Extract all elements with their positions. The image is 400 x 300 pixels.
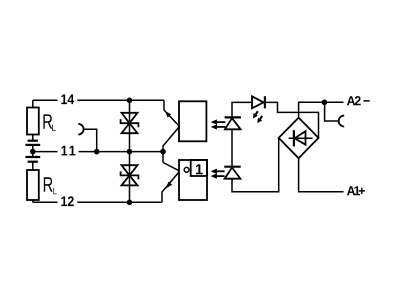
wire 11-node down stub (162, 152, 164, 163)
suppressor Z1 zener bar (121, 119, 139, 127)
label terminal 14 (61, 94, 74, 104)
connector socket left (78, 124, 83, 135)
wire Q2 collector diagonal (163, 163, 179, 171)
arrow D1 light out lower (260, 116, 263, 120)
arrow light U1 upper (217, 121, 226, 123)
suppressor Z1 top triangle (122, 113, 138, 123)
label R1 value R_L (43, 114, 55, 131)
wire terminal 11 line (33, 151, 163, 153)
circle U2 inverter bubble (184, 167, 189, 172)
box U1 phototransistor (179, 101, 206, 141)
led D2 opto triangle (225, 118, 241, 129)
capacitor C2 bottom plate (28, 161, 38, 163)
wire D1 to jog (265, 102, 319, 137)
arrow light U2 upper (217, 170, 225, 172)
wire TVS column lower (129, 152, 131, 203)
wire terminal 12 line (33, 201, 162, 203)
diode B1 inner cathode bar (293, 130, 295, 146)
wire 14-line to R1 (32, 100, 34, 107)
led D3 opto cathode bar (224, 166, 240, 168)
label terminal A1+ (347, 186, 365, 195)
label terminal 12 (61, 196, 73, 206)
arrow light U1 lower (217, 126, 226, 128)
led D3 opto triangle (225, 168, 241, 179)
suppressor Z2 top triangle (122, 165, 138, 175)
label U2 logic 1 (196, 164, 203, 174)
wire C2 to R2 (32, 162, 34, 170)
label terminal A2- (347, 96, 370, 105)
arrow D1 light out upper (255, 111, 258, 115)
node transistor junction on 11-line (160, 149, 166, 155)
node TVS2 bottom on 12-line (127, 200, 133, 206)
wire C1 to node mid (32, 145, 34, 157)
wire LED column top corner (232, 102, 252, 117)
wire bridge top to A2 line (299, 102, 344, 117)
box U2 photoreceiver with logic (179, 160, 207, 200)
node socket junction on 11 (94, 149, 100, 155)
resistor R2 body (27, 170, 39, 200)
diode B1 inner wire (289, 137, 313, 139)
connector socket right (339, 116, 345, 127)
node TVS junction on 11-line (127, 149, 133, 155)
wire 14-line corner down (163, 100, 165, 110)
wire D2 to D3 (231, 129, 233, 167)
label terminal 11 (62, 146, 76, 156)
suppressor Z1 bottom triangle (122, 123, 138, 133)
arrow light U2 lower (217, 175, 225, 177)
capacitor C2 top plate (25, 156, 40, 158)
label R2 value R_L (44, 177, 57, 194)
resistor R1 body (27, 108, 39, 135)
wire R2 to 12-line (32, 200, 34, 202)
bridge B1 diamond (279, 118, 319, 159)
led D1 indicator cathode bar (264, 96, 266, 108)
wire socket to 11-line (84, 129, 97, 151)
node A2 junction (322, 100, 328, 106)
wire R1 to capacitor C1 (32, 135, 34, 141)
arrow Q2 emitter arrowhead (166, 182, 172, 189)
wire Q2 emitter diagonal (162, 172, 179, 202)
node TVS1 top on 14-line (127, 98, 133, 104)
capacitor C1 top plate (28, 140, 38, 142)
diode B1 inner triangle (295, 131, 306, 145)
box U2 logic cell (191, 160, 207, 176)
led D1 indicator triangle (252, 96, 264, 108)
capacitor C1 bottom plate (25, 144, 40, 146)
suppressor Z2 bottom triangle (122, 175, 138, 185)
wire A2 branch to socket (325, 102, 339, 121)
wire D3 to A1 rail (232, 138, 279, 192)
suppressor Z2 zener bar (121, 171, 139, 179)
wire bridge bottom to A1 line (299, 158, 344, 192)
wire Q1 collector diagonal (164, 110, 179, 126)
wire terminal 14 line (33, 99, 164, 101)
arrow Q1 emitter arrowhead (165, 111, 171, 117)
wire TVS column upper (129, 100, 131, 151)
node junction caps to 11 (30, 149, 36, 155)
wire Q1 base-to-11 diagonal (163, 127, 179, 152)
led D2 opto cathode bar (225, 116, 241, 118)
